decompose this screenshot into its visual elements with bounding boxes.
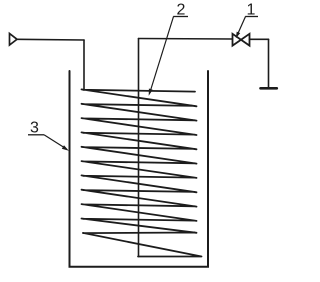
wire: valve to outlet [250,38,269,40]
wire: inlet pipe horizontal [17,38,84,41]
tank (vessel) item 3 [70,71,209,267]
label 3 leader [44,135,67,149]
wire: riser pipe from coil bottom [138,39,140,257]
svg-text:1: 1 [247,2,256,19]
outlet end bar [261,87,277,90]
wire: top pipe riser to valve [139,38,233,41]
coil (heating coil) item 2 [82,89,202,256]
svg-text:2: 2 [177,2,186,19]
valve item 1 [233,34,242,46]
label 1 leader [237,17,246,37]
wire: inlet downpipe [83,40,85,90]
inlet flow arrow (open triangle) [10,34,18,46]
svg-text:3: 3 [30,120,39,137]
wire: outlet downpipe [268,39,270,88]
label 2 leader [151,17,174,91]
